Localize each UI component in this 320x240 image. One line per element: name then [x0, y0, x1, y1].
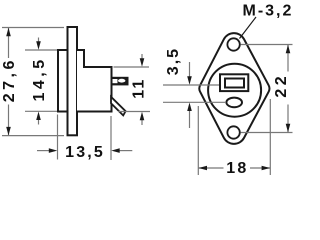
- extension line 13.5 right: [110, 116, 112, 160]
- oval opening: [226, 98, 242, 108]
- extension line 22 bottom: [241, 132, 293, 134]
- extension line 13.5 left: [57, 115, 59, 160]
- diagonal solder lug: [111, 97, 126, 116]
- svg-text:14,5: 14,5: [31, 56, 48, 101]
- dimension line 18 (inside arrows, broken for text): [198, 167, 223, 169]
- barrel (panel-side bushing): [58, 50, 68, 112]
- screw hole top M3.2: [227, 38, 239, 50]
- extension line 14.5 top: [25, 49, 58, 51]
- dimension 13.5 (outside arrows): [37, 150, 50, 152]
- svg-text:M-3,2: M-3,2: [243, 2, 294, 19]
- pin tab with slot: [112, 77, 129, 86]
- extension line 3.5 top: [163, 84, 219, 86]
- slot inner rectangle: [225, 79, 244, 88]
- svg-text:22: 22: [273, 73, 290, 98]
- leader line M-3,2: [240, 17, 257, 39]
- dimension 11 (outside arrows): [141, 54, 143, 60]
- extension line 18 left: [197, 106, 199, 175]
- extension line 11 bottom: [118, 111, 150, 113]
- dimension line 27.6 (inside arrows, broken for text): [8, 28, 10, 59]
- slot housing outer rectangle: [220, 74, 248, 91]
- extension line 14.5 bottom: [25, 110, 58, 112]
- extension line 11 top: [114, 66, 150, 68]
- body: [77, 50, 112, 112]
- svg-text:18: 18: [226, 160, 248, 176]
- extension line 3.5 bottom: [163, 101, 226, 103]
- extension line 27.6 top: [2, 27, 64, 29]
- flange outline: [199, 33, 269, 144]
- svg-text:13,5: 13,5: [65, 144, 105, 161]
- central circular face: [208, 64, 261, 117]
- dimension 3.5 (outside arrows): [189, 62, 191, 78]
- dimension 14.5 (outside arrows): [38, 38, 40, 44]
- extension line 27.6 bottom: [2, 135, 64, 137]
- flange plate: [68, 27, 78, 135]
- extension line 22 top: [241, 44, 293, 46]
- extension line 18 right: [269, 99, 271, 175]
- svg-text:11: 11: [131, 78, 148, 99]
- svg-text:3,5: 3,5: [165, 47, 182, 75]
- svg-text:27,6: 27,6: [1, 57, 18, 102]
- dimension line 22 (inside arrows, broken for text): [287, 45, 289, 72]
- screw hole bottom: [227, 126, 239, 138]
